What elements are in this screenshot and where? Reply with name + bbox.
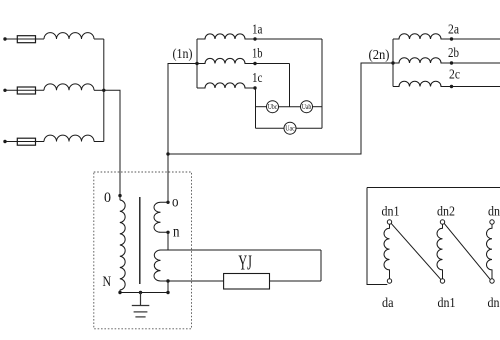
wire neutral link bbox=[168, 63, 393, 154]
node neutral link junction bbox=[166, 152, 169, 155]
svg-text:0: 0 bbox=[104, 190, 111, 206]
wire bbox=[296, 127, 322, 129]
svg-text:dn2: dn2 bbox=[437, 205, 455, 220]
node n terminal bbox=[166, 231, 169, 234]
delta winding 3 bbox=[487, 224, 493, 279]
svg-text:dn1: dn1 bbox=[382, 205, 400, 220]
winding 2c bbox=[393, 81, 452, 86]
wire bbox=[320, 250, 322, 281]
node 2c bbox=[450, 85, 453, 88]
phase B source terminal bbox=[3, 89, 6, 92]
wire bbox=[452, 38, 500, 40]
wire bbox=[452, 62, 500, 64]
svg-text:N: N bbox=[103, 274, 112, 290]
wire diagonal dn1 to dn1 bbox=[391, 223, 441, 279]
winding 2b bbox=[393, 58, 452, 63]
wire n to relay bbox=[168, 249, 321, 251]
node aux winding bottom bbox=[166, 279, 169, 282]
wire meter row 2 bbox=[256, 127, 285, 129]
wire from 1c down bbox=[255, 88, 257, 128]
fuse FU3 bbox=[17, 138, 35, 145]
wire 1n to neutral link bbox=[168, 64, 197, 155]
phase A source terminal bbox=[3, 37, 6, 40]
node 2a bbox=[450, 37, 453, 40]
transformer core bbox=[139, 197, 141, 284]
wire bbox=[279, 106, 301, 108]
node 0 terminal bbox=[118, 194, 121, 197]
wire bbox=[7, 141, 45, 143]
primary winding 0-N bbox=[120, 196, 125, 293]
terminal dn3 top bbox=[490, 220, 494, 224]
node N terminal bbox=[118, 291, 121, 294]
wire bbox=[7, 38, 45, 40]
node (1n) junction bbox=[195, 62, 198, 65]
delta winding 2 bbox=[437, 224, 443, 279]
wire bottom bus bbox=[120, 292, 168, 294]
winding 1a bbox=[197, 34, 255, 39]
svg-text:2a: 2a bbox=[448, 23, 460, 38]
terminal dn2 top bbox=[440, 220, 444, 224]
wire bbox=[167, 232, 169, 250]
wire from 1a down bbox=[321, 39, 323, 128]
inductor L2 bbox=[44, 84, 94, 90]
terminal dn1 top bbox=[387, 220, 391, 224]
wire bbox=[270, 280, 322, 282]
svg-text:Uab: Uab bbox=[302, 103, 312, 111]
svg-text:1c: 1c bbox=[252, 71, 263, 86]
wire delta box left edge bbox=[367, 188, 387, 285]
node bbox=[166, 291, 169, 294]
svg-text:dn3: dn3 bbox=[488, 205, 500, 220]
winding 2a bbox=[393, 34, 452, 39]
relay YJ box bbox=[224, 274, 270, 290]
phase C source terminal bbox=[3, 140, 6, 143]
svg-text:o: o bbox=[172, 194, 179, 211]
node 2b bbox=[450, 61, 453, 64]
wire bbox=[255, 63, 290, 65]
voltmeter Uac bbox=[284, 122, 296, 134]
ground bbox=[132, 293, 150, 317]
wire bbox=[255, 38, 322, 40]
wire bbox=[7, 89, 45, 91]
wire neutral link down to o bbox=[167, 154, 169, 202]
node ground junction bbox=[139, 291, 142, 294]
voltage transformer dashed enclosure bbox=[94, 172, 192, 329]
wire diagonal dn2 to dn2 bbox=[444, 223, 490, 279]
svg-text:da: da bbox=[382, 296, 394, 311]
node 1a bbox=[253, 37, 256, 40]
svg-text:(2n): (2n) bbox=[369, 48, 390, 63]
svg-text:dn1: dn1 bbox=[438, 296, 456, 311]
svg-text:n: n bbox=[173, 224, 180, 241]
wire bbox=[104, 90, 120, 195]
svg-text:2b: 2b bbox=[448, 46, 459, 61]
inductor L3 bbox=[44, 135, 94, 141]
node (2n) junction bbox=[391, 61, 394, 64]
winding 1c bbox=[197, 83, 255, 88]
wire bbox=[313, 106, 323, 108]
secondary winding o-n bbox=[154, 202, 168, 232]
svg-text:(1n): (1n) bbox=[173, 47, 193, 62]
wire meter row 1 bbox=[256, 106, 267, 108]
svg-text:YJ: YJ bbox=[238, 251, 252, 275]
voltmeter Ubc bbox=[267, 101, 279, 113]
node source neutral bbox=[102, 89, 105, 92]
wire bbox=[167, 281, 169, 293]
fuse FU1 bbox=[17, 36, 35, 43]
wire bbox=[452, 86, 500, 88]
delta winding box top edge bbox=[367, 187, 500, 189]
wire 2n bracket bbox=[392, 39, 394, 87]
source neutral bus bbox=[103, 39, 105, 142]
wire bbox=[94, 89, 104, 91]
wire bbox=[94, 141, 104, 143]
terminal da bottom bbox=[387, 279, 391, 283]
auxiliary winding bbox=[154, 250, 168, 281]
voltmeter Uab bbox=[301, 101, 313, 113]
inductor L1 bbox=[44, 33, 94, 39]
winding 1b bbox=[197, 58, 255, 63]
wire aux winding to relay bbox=[168, 280, 224, 282]
svg-text:1a: 1a bbox=[252, 23, 263, 38]
svg-text:1b: 1b bbox=[252, 47, 263, 62]
svg-text:Ubc: Ubc bbox=[268, 103, 278, 111]
wire from 1b down bbox=[289, 64, 291, 107]
fuse FU2 bbox=[17, 87, 35, 94]
node o terminal bbox=[166, 201, 169, 204]
wire 1n bracket bbox=[196, 39, 198, 88]
terminal dn1 bottom bbox=[440, 279, 444, 283]
svg-text:dn2: dn2 bbox=[488, 296, 500, 311]
wire bbox=[94, 38, 104, 40]
svg-text:Uac: Uac bbox=[285, 125, 295, 133]
node 1c bbox=[253, 86, 256, 89]
node 1b bbox=[253, 62, 256, 65]
svg-text:2c: 2c bbox=[449, 68, 460, 83]
delta winding 1 bbox=[384, 224, 390, 279]
terminal dn2 bottom bbox=[490, 279, 494, 283]
